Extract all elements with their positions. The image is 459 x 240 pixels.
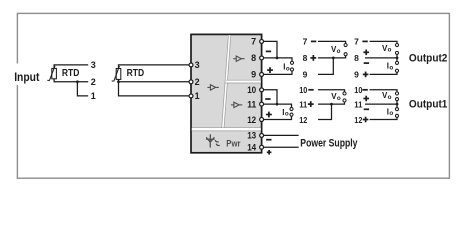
svg-text:13: 13 (247, 131, 256, 141)
svg-text:1: 1 (195, 91, 200, 101)
svg-text:11: 11 (299, 99, 307, 109)
svg-text:12: 12 (354, 115, 362, 125)
svg-text:9: 9 (354, 70, 359, 80)
svg-text:o: o (337, 48, 341, 55)
svg-text:12: 12 (299, 115, 307, 125)
svg-text:7: 7 (303, 37, 308, 47)
svg-text:8: 8 (251, 53, 256, 63)
svg-text:o: o (285, 111, 289, 118)
svg-text:Output1: Output1 (409, 99, 448, 111)
svg-text:Power Supply: Power Supply (300, 138, 357, 150)
svg-text:9: 9 (251, 70, 256, 80)
svg-text:1: 1 (91, 91, 96, 101)
svg-text:8: 8 (354, 53, 359, 63)
svg-text:12: 12 (247, 115, 256, 125)
svg-text:7: 7 (354, 37, 359, 47)
svg-text:2: 2 (91, 77, 96, 87)
svg-text:RTD: RTD (127, 68, 145, 79)
svg-text:o: o (389, 65, 393, 72)
svg-text:14: 14 (247, 143, 256, 153)
svg-text:RTD: RTD (62, 68, 80, 79)
svg-text:10: 10 (247, 85, 256, 95)
svg-text:Pwr: Pwr (226, 139, 240, 150)
svg-text:Output2: Output2 (409, 52, 448, 64)
svg-text:o: o (286, 65, 290, 72)
svg-text:o: o (337, 95, 341, 102)
svg-text:3: 3 (91, 60, 96, 70)
svg-text:3: 3 (195, 60, 200, 70)
svg-text:9: 9 (303, 70, 308, 80)
svg-text:8: 8 (303, 53, 308, 63)
svg-text:o: o (388, 94, 392, 101)
svg-text:11: 11 (354, 99, 362, 109)
svg-text:10: 10 (354, 85, 362, 95)
svg-text:o: o (388, 47, 392, 54)
svg-text:7: 7 (251, 37, 256, 47)
svg-text:Input: Input (14, 70, 39, 84)
svg-text:o: o (389, 110, 393, 117)
svg-text:10: 10 (299, 85, 307, 95)
svg-text:2: 2 (195, 77, 200, 87)
svg-text:11: 11 (247, 99, 256, 109)
